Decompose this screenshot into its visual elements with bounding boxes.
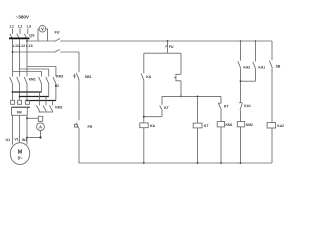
wire KM2 pole 1 outlet [41,85,43,93]
svg-text:FR: FR [88,125,93,129]
contactor KM3 contact pole 1 [36,105,39,111]
svg-text:KM2: KM2 [56,75,63,79]
svg-text:L12: L12 [19,44,26,48]
contactor coil KM2 [237,122,244,127]
svg-text:L13: L13 [26,44,33,48]
wire KM1 coil to bottom rail [220,127,222,163]
wire KT coil to bottom rail [197,128,199,163]
wire voltmeter left lead [38,29,40,41]
contactor KM3 contact pole 2 [43,105,46,111]
contact KA1 blade [253,62,256,69]
fuse FU2 contact on mid line [55,50,60,53]
contactor KM2 main contact pole 3 [53,77,56,84]
wire right branch mid [271,68,273,122]
svg-text:L2: L2 [18,24,22,28]
wire KT-contact drop [161,96,163,105]
svg-text:3~: 3~ [17,156,23,161]
junction connector [240,80,242,82]
wire ammeter loop bottom [27,137,41,139]
contact KA2 blade [238,61,241,68]
motor M 3~ [10,143,29,165]
svg-text:U2: U2 [55,84,59,88]
contactor KM1 main contact pole 2 [17,77,20,84]
svg-text:KA1: KA1 [244,104,251,108]
wire FR to motor phase A [12,115,14,144]
thermal contact FR blade [76,123,79,130]
fuse FU3 tick [165,45,167,48]
wire KM3 stub 2 [45,97,47,106]
wire KA hold branch lower [143,81,145,123]
junction bottom rail KT [197,162,199,164]
junction KA1 rail tap [255,40,257,42]
svg-text:KM2: KM2 [246,123,253,127]
svg-text:W1: W1 [22,138,27,142]
wire KM1 coil feed [220,110,222,121]
svg-text:KM1: KM1 [226,123,233,127]
wire L2 drop to QS [19,29,21,35]
contact KA hold blade [141,74,144,81]
wire KM3 star bar [39,111,54,113]
wire tap L1 to KM2 bank [13,72,42,77]
fuse FU pole 1 [11,100,15,104]
svg-text:~380V: ~380V [16,14,30,19]
wire control top rail left segment [27,40,55,42]
wire KM2 branch mid [240,81,242,102]
svg-text:V: V [41,26,44,31]
contactor KM2 main contact pole 2 [46,77,49,84]
junction bottom rail KM1 [220,162,222,164]
fuse FU1 contact on top rail [55,39,60,42]
contactor KM1 main contact pole 3 [24,77,27,84]
wire parallel split line [144,52,181,54]
svg-text:KT: KT [164,106,170,110]
wire KM1 pole outlets [12,85,14,101]
svg-text:KT: KT [224,104,230,108]
fuse FU pole 2 [18,100,22,104]
svg-text:KT: KT [204,124,210,128]
wire ammeter bottom lead [40,131,42,138]
wire KM2 pole 2 outlet [48,85,50,97]
wire KT-contact to jog [161,111,163,117]
switch QS blade pole 3 [24,34,27,39]
svg-text:KA: KA [146,75,152,79]
wire merge line 3 [27,100,56,102]
wire control mid line to corner [60,51,79,53]
contact KM1 interlock NC bar [239,102,242,104]
junction top rail feeder [167,40,169,42]
wire FR to motor phase C [26,115,28,144]
svg-text:KA2: KA2 [243,65,250,69]
junction bottom rail KA [143,162,145,164]
wire control mid line left segment [13,51,55,53]
wire KM3 stub 3 [52,101,54,106]
wire L3 drop to QS [27,29,29,35]
wire bottom rail [79,162,272,164]
wire merge line 1 [13,91,42,93]
pushbutton SB2 start symbol [174,74,181,81]
switch QS blade pole 1 [10,34,13,39]
pushbutton SB1 stop blade [76,73,79,80]
wire phase C below QS [26,40,28,77]
svg-text:SB: SB [276,65,281,69]
switch QS linkage bar [9,37,30,39]
wire KA hold branch upper [143,53,145,73]
contact KT blade [160,106,163,111]
wire phase B below QS [19,40,21,77]
wire tap L2 to KM2 bank [20,69,49,77]
wire right branch from rail corner [271,41,273,60]
svg-text:U1: U1 [5,138,10,142]
wire parallel connector [241,80,256,82]
wire SB2 to rail [180,81,182,97]
svg-text:V1: V1 [14,138,18,142]
svg-text:FU: FU [169,45,174,49]
svg-text:L1: L1 [10,24,14,28]
wire left branch lower [78,130,80,163]
contactor KM2 main contact pole 1 [39,77,42,84]
wire start feeder [167,41,169,53]
wire merge line 2 [20,96,49,98]
contactor coil KM1 [217,122,224,127]
junction phase taps [26,40,28,42]
wire L1 drop to QS [12,29,14,35]
svg-text:QS: QS [29,34,35,38]
svg-text:KA: KA [150,124,156,128]
relay coil KA2 [267,123,276,128]
svg-text:KM3: KM3 [55,105,62,109]
wire KA1 to connector [255,69,257,81]
svg-text:SB1: SB1 [85,75,92,79]
pushbutton SB3 blade [269,61,272,68]
wire KT coil drop [197,96,199,123]
wire KA1 contact branch [255,41,257,62]
fuse FU pole 3 [25,100,29,104]
junction jog KA [143,116,145,118]
wire KA2 to connector [240,69,242,82]
thermal relay FR box [12,106,30,108]
current transformer TA [38,116,42,121]
svg-text:KM1: KM1 [29,78,36,82]
voltmeter PV [39,25,46,32]
wire ammeter loop top [27,117,38,119]
wire KM2 coil to bottom rail [240,127,242,163]
contactor KM3 contact pole 3 [49,105,52,111]
contact KT delay blade [218,103,221,110]
svg-text:M: M [18,149,23,155]
pushbutton SB1 actuator [73,74,76,79]
svg-text:KA1: KA1 [258,65,265,69]
junction SB2 rail [180,96,182,98]
junction KA2 rail tap [240,40,242,42]
wire KM2 pole 3 outlet [55,85,57,101]
wire KA2 coil to bottom rail [271,128,273,163]
pushbutton SB2 start branch upper [180,53,182,74]
wire KM2 coil feed [240,110,242,121]
junction KT coil rail [197,96,199,98]
svg-text:FU: FU [54,31,59,35]
wire FR to motor phase B [19,115,21,143]
wire jog to KA branch [144,116,162,118]
wire left branch mid [78,81,80,121]
wire control rail mid [162,95,221,97]
wire tap L3 to KM2 bank [27,67,56,77]
svg-text:KA2: KA2 [277,124,284,128]
relay coil KT [193,123,202,128]
wire left control branch upper [78,52,80,72]
wire voltmeter right lead [45,29,47,41]
ammeter PA [37,123,45,131]
switch QS blade pole 2 [17,34,20,39]
wire KA2 contact branch [240,41,242,61]
thermal contact FR bump [74,124,77,127]
contact KT delay NC bar [218,102,221,104]
wire KA coil to bottom rail [143,128,145,163]
svg-text:L3: L3 [27,24,31,28]
wire KM1 branch from rail [220,96,222,103]
wire KM3 stub 1 [39,92,41,105]
wire phase A below QS [12,40,14,77]
junction ammeter bottom [39,136,41,138]
junction bottom rail KM2 [240,162,242,164]
svg-text:A: A [39,125,42,130]
contact KM1 interlock blade [240,103,242,110]
wire control top rail [60,40,272,42]
svg-text:FR: FR [17,111,22,115]
contactor KM1 main contact pole 1 [10,77,13,84]
relay coil KA [140,123,148,128]
